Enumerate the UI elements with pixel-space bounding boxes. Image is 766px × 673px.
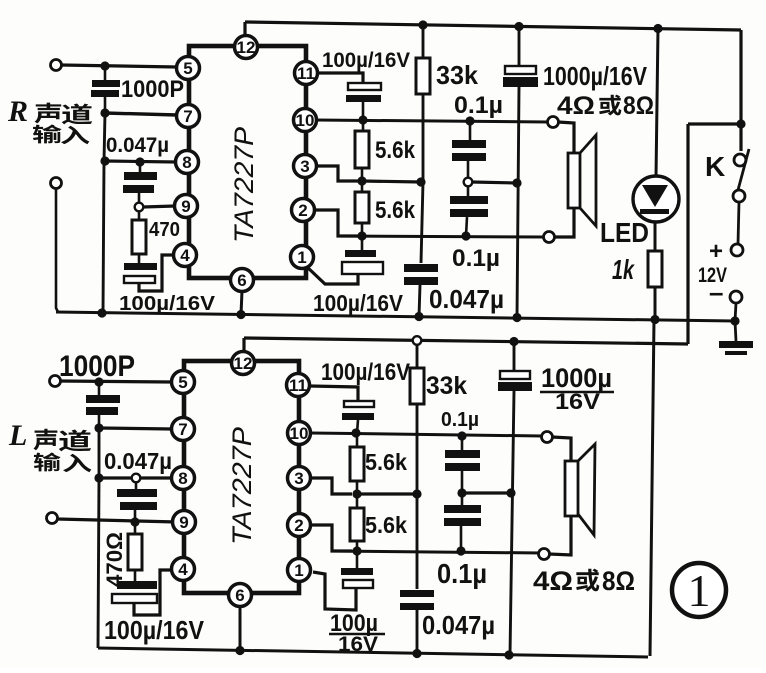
label C14 0.1u xyxy=(441,409,479,431)
label C1 1000P xyxy=(121,76,184,103)
capacitor C4 100u/16V xyxy=(346,83,381,120)
svg-text:TA7227P: TA7227P xyxy=(227,427,257,545)
svg-text:1: 1 xyxy=(294,561,303,580)
svg-text:16V: 16V xyxy=(555,389,600,414)
node 1000u rail top xyxy=(514,22,523,31)
wire minus to gnd rail xyxy=(735,303,736,321)
wire left vertical rail L xyxy=(98,428,101,478)
wire pin 12 up L xyxy=(242,338,245,352)
capacitor C11 0.047u xyxy=(117,482,157,518)
IC U2 pin 3 xyxy=(288,467,311,490)
wire pin 2 elbow L xyxy=(311,525,352,551)
wire pin 3 elbow L xyxy=(311,478,352,494)
wire pin 6 down L xyxy=(239,606,242,651)
IC U1 pin 10 xyxy=(294,109,317,132)
wire input L-1 to pin 5 xyxy=(60,381,172,382)
wire ground rail L channel xyxy=(98,648,648,657)
wire junction to 33k rail xyxy=(362,181,421,182)
label R4 33k xyxy=(436,60,479,90)
svg-text:1k: 1k xyxy=(612,254,635,285)
speaker SP1 xyxy=(568,135,596,226)
label SP1 4ohm or 8ohm xyxy=(557,92,654,120)
svg-text:12: 12 xyxy=(237,38,256,57)
svg-text:0.047µ: 0.047µ xyxy=(106,134,169,157)
capacitor C17 1000u/16V xyxy=(498,342,532,656)
capacitor C6 100u/16V xyxy=(342,236,383,274)
label plus xyxy=(709,238,723,265)
speaker SP2 terminal minus xyxy=(539,549,550,560)
svg-text:0.047µ: 0.047µ xyxy=(429,284,504,314)
IC U2 label TA7227P xyxy=(227,427,257,545)
IC U2 pin 6 xyxy=(229,584,252,607)
node C2 top xyxy=(135,157,144,166)
capacitor C16 0.047u xyxy=(400,494,434,654)
node junction pin7 wire xyxy=(100,108,109,117)
IC U2 pin 8 xyxy=(172,467,195,490)
IC U1 pin 5 xyxy=(177,57,200,80)
wire pin 2 elbow xyxy=(315,210,358,236)
capacitor C18 0.1u lower xyxy=(444,497,481,551)
IC U2 pin 10 xyxy=(288,422,311,445)
IC U1 pin 7 xyxy=(177,105,200,128)
node gnd left xyxy=(97,308,106,317)
label C9 0.1u xyxy=(452,245,500,272)
wire input R-2 down xyxy=(56,188,58,312)
wire pin 12 up xyxy=(243,22,246,36)
wire to SP2 plus xyxy=(552,437,571,461)
input terminal R-2 xyxy=(51,178,62,189)
wire pin 11 to C13 xyxy=(310,386,358,401)
IC U1 pin 8 xyxy=(176,151,199,174)
battery minus terminal xyxy=(730,291,742,303)
IC U2 pin 5 xyxy=(172,371,195,394)
capacitor C3 100u/16V xyxy=(124,263,157,283)
label minus xyxy=(709,277,723,307)
wire switch to battery plus xyxy=(738,202,739,244)
wire to pin 8 L xyxy=(99,476,172,479)
node C14 bottom xyxy=(457,488,466,497)
svg-text:4Ω: 4Ω xyxy=(557,92,595,120)
label L channel input xyxy=(8,419,91,472)
svg-text:8: 8 xyxy=(182,153,191,172)
node C5 top xyxy=(465,116,474,125)
label R8 5.6k xyxy=(365,512,407,538)
label R6 470ohm xyxy=(102,532,127,587)
capacitor C12 100u/16V xyxy=(112,581,157,603)
label C3 100u/16V xyxy=(119,293,216,315)
svg-text:0.1µ: 0.1µ xyxy=(454,92,503,119)
node gnd pin6 xyxy=(236,310,245,319)
svg-text:9: 9 xyxy=(179,513,188,532)
wire input R-1 to pin 5 xyxy=(61,65,177,67)
speaker SP1 terminal minus xyxy=(544,232,555,243)
label C11 0.047u xyxy=(104,448,172,474)
svg-text:+: + xyxy=(709,238,723,265)
wire pin 10 to speaker L xyxy=(311,433,542,436)
speaker SP2 terminal plus xyxy=(542,432,553,443)
svg-text:8Ω: 8Ω xyxy=(623,92,654,120)
label C10 1000P xyxy=(59,350,135,383)
svg-text:R: R xyxy=(7,95,28,128)
label C15 100u 16V fraction xyxy=(329,610,385,656)
label R channel input xyxy=(7,95,92,144)
label C8 1000u/16V xyxy=(543,61,648,91)
wire gnd rail down to L channel xyxy=(650,320,654,657)
svg-text:100µ/16V: 100µ/16V xyxy=(322,49,410,72)
node R5 gnd xyxy=(650,315,659,324)
label R2 5.6k xyxy=(375,137,416,164)
capacitor C9 0.1u lower xyxy=(450,187,488,236)
svg-text:16V: 16V xyxy=(338,633,378,656)
node on 33k rail xyxy=(416,177,425,186)
svg-text:0.047µ: 0.047µ xyxy=(422,610,495,640)
wire pin 6 down xyxy=(241,291,242,315)
wire left rail L down xyxy=(98,478,99,648)
IC U1 pin 9 xyxy=(175,195,198,218)
svg-text:5: 5 xyxy=(178,373,187,392)
IC U2 pin 4 xyxy=(172,558,195,581)
ground symbol xyxy=(719,321,753,355)
wire left vertical rail R xyxy=(104,113,105,161)
wire bottom to speaker minus L xyxy=(332,551,541,553)
IC U2 TA7227P body xyxy=(184,361,299,593)
node gnd right xyxy=(730,316,739,325)
svg-text:5: 5 xyxy=(183,59,192,78)
label C4 100u/16V xyxy=(322,49,410,72)
svg-text:10: 10 xyxy=(296,111,315,130)
label C5 0.1u xyxy=(454,92,503,119)
svg-text:11: 11 xyxy=(289,376,307,395)
IC U1 pin 2 xyxy=(292,199,315,222)
wire branch to L rail xyxy=(688,122,741,125)
IC U2 pin 11 xyxy=(287,374,310,397)
node 33k rail top xyxy=(418,20,427,29)
wire junction to 33k rail L xyxy=(357,492,417,495)
capacitor C7 0.047u xyxy=(404,182,438,317)
capacitor C14 0.1u upper xyxy=(445,436,480,490)
label SP2 4ohm or 8ohm xyxy=(533,566,635,596)
wire pin 11 to C4 xyxy=(318,73,363,83)
resistor R1 470 xyxy=(132,211,146,263)
capacitor C2 0.047u xyxy=(123,162,157,203)
wire bottom to speaker minus xyxy=(338,236,545,237)
resistor R8 5.6k lower xyxy=(350,494,364,551)
svg-text:7: 7 xyxy=(178,420,187,439)
IC U1 pin 6 xyxy=(231,269,254,292)
node gnd pin6 L xyxy=(235,646,244,655)
capacitor C5 0.1u upper xyxy=(452,121,486,177)
IC U2 pin 7 xyxy=(172,418,195,441)
switch K lever xyxy=(738,149,749,190)
label C16 0.047u xyxy=(422,610,495,640)
resistor R7 5.6k upper xyxy=(350,433,364,494)
svg-text:5.6k: 5.6k xyxy=(365,512,407,538)
wire to pin 7 L xyxy=(99,428,172,429)
svg-text:100µ/16V: 100µ/16V xyxy=(104,615,205,645)
node mid 0.1u rail L xyxy=(506,488,515,497)
figure number 1 xyxy=(672,563,726,617)
svg-text:0.1µ: 0.1µ xyxy=(452,245,500,272)
resistor R9 33k xyxy=(410,345,424,495)
svg-text:3: 3 xyxy=(300,157,309,176)
label C12 100u/16V xyxy=(104,615,205,645)
node C5 bottom xyxy=(464,178,473,187)
IC U1 pin 3 xyxy=(294,155,317,178)
label R5 1k xyxy=(612,254,635,285)
svg-text:LED: LED xyxy=(600,217,649,248)
svg-text:–: – xyxy=(709,277,723,307)
capacitor C15 100u/16V xyxy=(341,551,373,588)
wire LED rail xyxy=(656,29,658,178)
svg-text:5.6k: 5.6k xyxy=(375,137,416,164)
node C11 top xyxy=(132,474,141,483)
node LED rail top xyxy=(653,24,662,33)
node switch branch xyxy=(736,119,745,128)
battery plus terminal xyxy=(731,244,743,256)
wire to pin 8 xyxy=(105,161,176,162)
svg-text:470: 470 xyxy=(149,219,180,241)
svg-text:6: 6 xyxy=(235,586,244,605)
node C11 bottom xyxy=(130,517,139,526)
svg-text:2: 2 xyxy=(298,201,307,220)
node C14 top xyxy=(457,431,466,440)
svg-text:0.1µ: 0.1µ xyxy=(437,558,487,589)
svg-text:1: 1 xyxy=(297,248,306,267)
speaker SP2 xyxy=(565,444,595,535)
LED D1 xyxy=(633,176,679,222)
svg-text:33k: 33k xyxy=(436,60,479,90)
wire to SP1 minus xyxy=(554,208,574,237)
node C18 bottom xyxy=(456,546,465,555)
label C13 100u/16V xyxy=(321,359,410,386)
resistor R6 470 xyxy=(128,522,142,581)
node junction L input xyxy=(94,377,103,386)
IC U2 pin 1 xyxy=(288,559,311,582)
label C6 100u/16V xyxy=(313,290,404,316)
resistor R5 1k xyxy=(648,222,662,320)
wire pin 3 elbow xyxy=(317,166,358,181)
node C16 gnd xyxy=(412,649,421,658)
wire input L-2 to pin 9 xyxy=(57,519,177,522)
node junction R input xyxy=(100,61,109,70)
wire +V corner down xyxy=(739,30,742,151)
wire ground rail R channel xyxy=(56,312,735,321)
label 12V xyxy=(698,264,727,287)
svg-text:100µ/16V: 100µ/16V xyxy=(321,359,410,386)
IC U1 pin 4 xyxy=(174,244,197,267)
label C17 1000u 16V fraction xyxy=(540,363,614,414)
wire C3 to pin 4 xyxy=(139,255,174,291)
IC U2 pin 9 xyxy=(173,511,196,534)
speaker SP1 terminal plus xyxy=(548,117,559,128)
node junction pin8 wire L xyxy=(94,473,103,482)
svg-text:0.1µ: 0.1µ xyxy=(441,409,479,431)
label C18 0.1u xyxy=(437,558,487,589)
svg-text:11: 11 xyxy=(297,64,315,83)
svg-text:4Ω: 4Ω xyxy=(533,566,573,596)
wire pin 10 to speaker xyxy=(316,120,548,122)
svg-text:1000P: 1000P xyxy=(59,350,135,383)
wire to SP2 minus xyxy=(549,516,571,555)
capacitor C8 1000u/16V xyxy=(503,27,538,318)
IC U1 pin 11 xyxy=(295,62,318,85)
svg-text:4: 4 xyxy=(178,560,188,579)
label R3 5.6k xyxy=(375,197,416,224)
IC U2 pin 12 xyxy=(232,352,255,375)
node C17 gnd xyxy=(504,650,513,659)
wire pin 1 to C15 xyxy=(313,572,356,610)
IC U1 label TA7227P xyxy=(229,127,259,243)
node 33k rail top L xyxy=(413,336,422,345)
svg-text:L: L xyxy=(8,419,27,452)
input terminal L-2 xyxy=(47,513,58,524)
svg-text:7: 7 xyxy=(183,107,192,126)
svg-text:8Ω: 8Ω xyxy=(602,566,635,596)
IC U2 pin 2 xyxy=(288,514,311,537)
switch K terminal top xyxy=(734,154,746,166)
label K xyxy=(705,151,725,182)
svg-text:100µ/16V: 100µ/16V xyxy=(313,290,404,316)
svg-text:10: 10 xyxy=(290,424,309,443)
node C2 bottom xyxy=(135,203,144,212)
wire +V rail L channel xyxy=(244,338,688,344)
resistor R3 5.6k lower xyxy=(355,181,369,236)
switch K terminal bottom xyxy=(733,190,745,202)
svg-text:TA7227P: TA7227P xyxy=(229,127,259,243)
node C9 bottom xyxy=(461,231,470,240)
capacitor C13 100u/16V xyxy=(342,401,374,433)
wire L +V vertical xyxy=(686,124,689,344)
svg-text:8: 8 xyxy=(178,469,187,488)
node junction pin8 wire xyxy=(100,156,109,165)
svg-text:K: K xyxy=(705,151,725,182)
label R1 470 xyxy=(149,219,180,241)
capacitor C1 1000P xyxy=(91,66,120,112)
capacitor C10 1000P xyxy=(86,382,120,428)
svg-text:0.047µ: 0.047µ xyxy=(104,448,172,474)
node C13 bottom xyxy=(351,428,360,437)
resistor R2 5.6k upper xyxy=(355,120,369,181)
IC U1 TA7227P body xyxy=(189,46,306,278)
node C4 bottom xyxy=(358,115,367,124)
node 1000u rail top L xyxy=(509,337,518,346)
svg-text:12: 12 xyxy=(234,354,253,373)
IC U1 pin 12 xyxy=(235,36,258,59)
svg-text:9: 9 xyxy=(181,197,190,216)
node on 33k rail L xyxy=(412,489,421,498)
svg-text:470Ω: 470Ω xyxy=(102,532,127,587)
node R2-R3 junction xyxy=(357,176,366,185)
label LED xyxy=(600,217,649,248)
wire left rail to ground xyxy=(103,161,104,313)
svg-text:33k: 33k xyxy=(426,372,467,400)
label R7 5.6k xyxy=(365,449,407,475)
svg-text:3: 3 xyxy=(294,469,303,488)
node C8 gnd xyxy=(512,313,521,322)
svg-text:4: 4 xyxy=(180,246,190,265)
node R8 bottom xyxy=(352,546,361,555)
node C7 gnd xyxy=(414,312,423,321)
svg-text:6: 6 xyxy=(237,271,246,290)
input terminal R-1 xyxy=(51,60,62,71)
wire C5 node to rail xyxy=(472,182,517,183)
svg-text:1000µ/16V: 1000µ/16V xyxy=(543,61,648,91)
node R3 bottom xyxy=(357,231,366,240)
wire to SP1 plus xyxy=(558,122,574,153)
node R7-R8 junction xyxy=(352,489,361,498)
svg-text:5.6k: 5.6k xyxy=(365,449,407,475)
label C7 0.047u xyxy=(429,284,504,314)
wire pin 1 to C6 xyxy=(306,266,358,284)
resistor R4 33k xyxy=(416,26,430,182)
wire to pin 9 xyxy=(143,206,175,207)
wire +V rail R channel xyxy=(245,22,741,30)
label R9 33k xyxy=(426,372,467,400)
svg-text:2: 2 xyxy=(294,516,303,535)
wire to pin 7 xyxy=(105,113,177,115)
label C2 0.047u xyxy=(106,134,169,157)
wire C14 node to rail L xyxy=(462,491,511,494)
input terminal L-1 xyxy=(50,376,61,387)
svg-text:1000P: 1000P xyxy=(121,76,184,103)
svg-text:5.6k: 5.6k xyxy=(375,197,416,224)
wire C12 to pin 4 xyxy=(134,570,172,615)
node junction pin7 wire L xyxy=(94,423,103,432)
IC U1 pin 1 xyxy=(291,246,314,269)
svg-text:1: 1 xyxy=(688,565,711,616)
node mid 0.1u rail xyxy=(512,178,521,187)
